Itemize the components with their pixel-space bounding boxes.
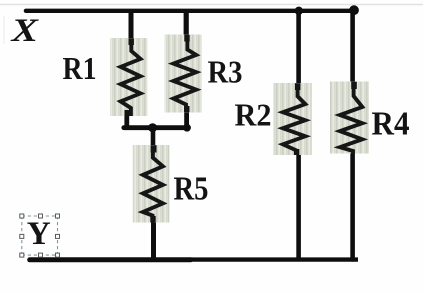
junction dot at right end of bar xyxy=(183,124,191,132)
wire: R1 top lead xyxy=(129,11,134,42)
wire: branch through R2 xyxy=(296,11,301,260)
label R1 xyxy=(63,51,97,86)
wire: R5 top lead xyxy=(151,128,156,150)
wire: bottom bus (node Y), right segment xyxy=(191,257,359,261)
wire: R5 bottom lead xyxy=(151,218,156,260)
wire: R3 bottom lead xyxy=(184,109,189,128)
svg-text:R2: R2 xyxy=(235,97,272,132)
resistor R1 xyxy=(110,38,148,116)
svg-text:Y: Y xyxy=(27,216,51,252)
svg-text:R1: R1 xyxy=(63,51,97,86)
junction dot at top-right corner xyxy=(349,5,359,15)
resistor R2 xyxy=(273,83,312,155)
wire: R1 bottom lead xyxy=(124,113,129,128)
wire: top bus (node X) xyxy=(26,9,354,13)
wire: junction bar joining R1 and R3 bottoms xyxy=(124,125,187,130)
node X label xyxy=(10,13,39,49)
node Y label xyxy=(27,216,51,252)
svg-text:R4: R4 xyxy=(372,105,410,142)
resistor R3 xyxy=(165,35,203,113)
svg-text:R5: R5 xyxy=(174,170,209,207)
selection box around node Y label xyxy=(20,214,60,257)
wire: bottom bus (node Y), left segment xyxy=(30,257,191,262)
label R3 xyxy=(208,54,243,89)
wire: R3 top lead xyxy=(184,11,189,40)
resistor R5 xyxy=(133,145,170,223)
label R2 xyxy=(235,97,272,132)
junction dot at R1/R3/R5 node xyxy=(148,123,157,132)
label R5 xyxy=(174,170,209,207)
svg-text:R3: R3 xyxy=(208,54,243,89)
resistor R4 xyxy=(330,82,369,154)
label R4 xyxy=(372,105,410,142)
wire: right branch through R4 xyxy=(350,11,355,260)
junction dot where R2 branch meets top bus xyxy=(295,7,303,15)
svg-text:X: X xyxy=(10,13,39,49)
